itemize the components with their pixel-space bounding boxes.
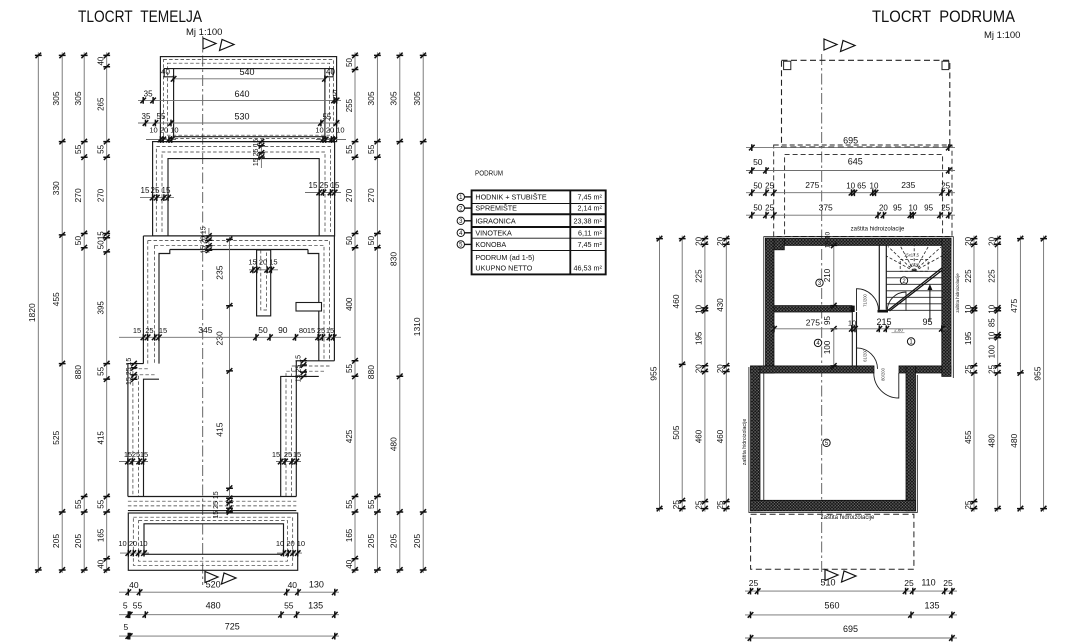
dim chain right RC1 [354, 52, 356, 573]
svg-text:15: 15 [141, 186, 150, 195]
svg-text:15: 15 [307, 326, 315, 335]
svg-text:275: 275 [806, 317, 820, 327]
svg-text:100: 100 [988, 344, 997, 358]
svg-text:25: 25 [941, 181, 950, 190]
right plan chain R4 [1043, 236, 1045, 512]
svg-text:15: 15 [272, 450, 280, 459]
svg-text:15x17,5: 15x17,5 [904, 253, 920, 258]
svg-text:55: 55 [97, 366, 106, 375]
S3 left step wall [128, 364, 159, 497]
S3a band upper big section [143, 236, 334, 364]
room number 4 [814, 339, 821, 346]
svg-text:15: 15 [159, 326, 167, 335]
big room top wall right part [899, 366, 951, 373]
svg-text:IGRAONICA: IGRAONICA [475, 216, 516, 225]
right plan chain R3 [1019, 236, 1021, 512]
svg-text:205: 205 [389, 534, 399, 548]
legend circle 1 [457, 193, 464, 200]
top dim row4 [746, 214, 955, 216]
section axis line left plan [202, 36, 204, 585]
svg-text:395: 395 [97, 301, 106, 315]
svg-text:15: 15 [140, 450, 148, 459]
svg-text:TLOCRT TEMELJA: TLOCRT TEMELJA [78, 7, 203, 26]
svg-text:455: 455 [51, 292, 61, 306]
svg-text:110: 110 [921, 578, 935, 588]
dim chain left D [106, 52, 108, 573]
svg-text:55: 55 [97, 499, 106, 508]
svg-text:55: 55 [73, 499, 83, 509]
svg-text:25: 25 [151, 186, 160, 195]
svg-text:15: 15 [97, 231, 106, 240]
svg-text:KONOBA: KONOBA [475, 240, 506, 249]
svg-text:Mj 1:100: Mj 1:100 [984, 30, 1020, 41]
svg-text:5: 5 [332, 89, 337, 98]
svg-text:55: 55 [284, 600, 294, 610]
svg-text:46,53 m²: 46,53 m² [574, 264, 603, 273]
S1 wall dims 10 20 10 left [146, 139, 176, 141]
svg-text:530: 530 [234, 111, 249, 121]
S4 wall dims 10 20 10 right [277, 552, 302, 554]
svg-text:55: 55 [322, 112, 331, 121]
svg-text:375: 375 [819, 202, 833, 212]
S1 dim 530 [138, 122, 340, 124]
section mark top left plan [203, 38, 216, 49]
svg-text:15: 15 [331, 181, 340, 190]
S2 top wall dims 15 25 15 vertical [260, 138, 262, 168]
svg-text:305: 305 [389, 91, 399, 105]
dim chain left B [61, 52, 63, 573]
svg-text:270: 270 [97, 188, 106, 202]
svg-text:560: 560 [824, 601, 839, 611]
svg-text:540: 540 [239, 67, 254, 77]
svg-text:480: 480 [1009, 433, 1019, 447]
door 2 arc at stair base [887, 292, 906, 311]
svg-text:80/200: 80/200 [881, 367, 886, 380]
svg-text:40: 40 [161, 68, 170, 77]
interior dim row y=328.8 [770, 328, 947, 330]
svg-text:235: 235 [901, 180, 915, 190]
right plan chain L3 [704, 236, 706, 512]
svg-text:35: 35 [142, 112, 151, 121]
svg-text:25: 25 [765, 181, 774, 190]
svg-text:50: 50 [258, 325, 268, 335]
svg-text:6,11 m²: 6,11 m² [578, 228, 602, 237]
svg-text:zaštita hidroizolacije: zaštita hidroizolacije [851, 227, 905, 233]
svg-text:415: 415 [215, 422, 225, 436]
svg-text:7,45 m²: 7,45 m² [578, 240, 603, 249]
svg-text:95: 95 [924, 204, 933, 213]
svg-text:880: 880 [366, 365, 376, 379]
bottom dim row3 left plan [119, 635, 339, 637]
legend circle 2 [457, 204, 464, 211]
svg-text:215: 215 [876, 317, 891, 327]
dim chain left C [83, 52, 85, 573]
svg-text:695: 695 [843, 135, 858, 145]
bottom dim row2 right plan [745, 614, 957, 616]
svg-text:270: 270 [366, 188, 376, 202]
right plan chain L2 [681, 236, 683, 512]
S3 right wall dims 15 25 15 at y457 [276, 461, 301, 463]
svg-text:55: 55 [366, 144, 376, 154]
bottom dim row1 left plan [119, 591, 339, 593]
svg-text:Mj 1:100: Mj 1:100 [186, 27, 222, 38]
svg-text:460: 460 [695, 429, 704, 443]
room number 1 [907, 338, 914, 345]
svg-text:1310: 1310 [412, 317, 422, 336]
svg-text:HODNIK + STUBIŠTE: HODNIK + STUBIŠTE [475, 192, 546, 201]
svg-text:505: 505 [671, 425, 681, 439]
stair winder dashed rays [888, 247, 914, 272]
svg-text:400: 400 [345, 297, 354, 311]
svg-text:25: 25 [317, 326, 325, 335]
svg-text:50: 50 [97, 240, 106, 249]
top dim row3 [746, 192, 955, 194]
corridor wall [852, 312, 856, 366]
svg-text:40: 40 [129, 580, 139, 590]
svg-text:15 25 15: 15 25 15 [213, 491, 220, 518]
svg-text:95: 95 [922, 317, 932, 327]
svg-text:460: 460 [671, 294, 681, 308]
big room top wall left part [760, 366, 874, 373]
svg-text:23,38 m²: 23,38 m² [574, 216, 603, 225]
foundation outline S1 top box [160, 57, 336, 142]
svg-text:15 25 15: 15 25 15 [126, 358, 133, 385]
svg-text:2,14 m²: 2,14 m² [578, 204, 603, 213]
svg-text:55: 55 [366, 499, 376, 509]
svg-text:50: 50 [73, 236, 83, 246]
svg-text:135: 135 [308, 600, 323, 610]
right upper wall hatched [942, 238, 951, 376]
svg-text:25: 25 [943, 578, 953, 588]
svg-text:71/200: 71/200 [863, 293, 868, 306]
svg-text:25: 25 [145, 326, 153, 335]
legend circle 5 [457, 241, 464, 248]
stair up line with arrow [929, 286, 931, 321]
left step wall dims 15 25 15 vertical [131, 361, 138, 367]
svg-text:695: 695 [843, 624, 858, 634]
S3b bottom band [128, 497, 296, 511]
svg-text:430: 430 [716, 298, 725, 312]
section mark bottom right plan [825, 570, 838, 581]
svg-text:330: 330 [51, 181, 61, 195]
svg-text:50: 50 [345, 236, 354, 245]
svg-text:195: 195 [695, 331, 704, 345]
svg-text:955: 955 [648, 366, 658, 380]
svg-text:15 20 15: 15 20 15 [248, 258, 277, 267]
section mark bottom left plan [205, 572, 218, 583]
S3a top wall dims 15 20 15 vertical [208, 228, 210, 253]
svg-text:225: 225 [988, 269, 997, 283]
S1 dim 540 [172, 78, 326, 80]
bottom dim row1 right plan [745, 590, 957, 592]
svg-text:205: 205 [366, 534, 376, 548]
svg-text:55: 55 [73, 144, 83, 154]
stair treads [886, 270, 942, 272]
svg-text:7,45 m²: 7,45 m² [578, 192, 603, 201]
svg-text:50: 50 [753, 181, 762, 190]
S4 wall dims 10 20 10 left [120, 552, 149, 554]
upper dashed footprint rect [782, 60, 950, 147]
legend table [472, 190, 606, 274]
svg-text:85: 85 [988, 318, 997, 327]
left lower wall + step [751, 366, 774, 373]
svg-text:270: 270 [345, 188, 354, 202]
corner square top-left [784, 61, 791, 69]
svg-text:425: 425 [345, 429, 354, 443]
door 4 arc corridor [857, 348, 878, 369]
svg-text:480: 480 [206, 600, 221, 610]
svg-text:55: 55 [345, 364, 354, 373]
svg-text:55: 55 [133, 600, 143, 610]
svg-text:510: 510 [820, 578, 835, 588]
excavation dashed rect inner [785, 154, 943, 236]
top dim 695 [746, 147, 955, 149]
right step wall dims 15 25 15 vertical [300, 358, 307, 364]
svg-text:PODRUM: PODRUM [475, 168, 503, 177]
svg-text:65: 65 [857, 181, 866, 190]
svg-text:15 25 15: 15 25 15 [253, 139, 260, 166]
svg-text:345: 345 [198, 325, 212, 335]
svg-text:95: 95 [823, 316, 832, 325]
svg-text:235: 235 [215, 265, 225, 279]
svg-text:50: 50 [366, 236, 376, 246]
svg-text:480: 480 [389, 437, 399, 451]
svg-text:16/25: 16/25 [909, 263, 920, 268]
svg-text:zaštita hidroizolacije: zaštita hidroizolacije [742, 419, 748, 466]
svg-text:15 20 15: 15 20 15 [200, 226, 207, 253]
svg-text:61/200: 61/200 [863, 348, 868, 361]
S1 wall dims 10 20 10 right [316, 139, 346, 141]
right pier rect [296, 303, 322, 312]
middle wall hatched [774, 306, 852, 312]
room number 3 [816, 279, 823, 286]
right plan chain R2 [997, 236, 999, 512]
section mark top right plan [824, 39, 837, 50]
svg-text:5: 5 [124, 622, 129, 632]
svg-text:25: 25 [765, 204, 774, 213]
svg-text:10: 10 [909, 204, 918, 213]
svg-text:270: 270 [73, 188, 83, 202]
svg-text:25: 25 [320, 181, 329, 190]
S4 bottom box band [128, 513, 297, 570]
svg-text:95: 95 [893, 204, 902, 213]
top dim 50/645 [746, 170, 955, 172]
svg-text:230: 230 [215, 331, 225, 345]
svg-text:25: 25 [904, 578, 914, 588]
central pier stub [257, 250, 271, 316]
right plan chain L1 [659, 236, 661, 512]
svg-text:10 20 10: 10 20 10 [149, 126, 178, 135]
svg-text:40: 40 [345, 559, 354, 568]
axis dim 210 [833, 245, 835, 305]
svg-text:10: 10 [846, 181, 855, 190]
S3b bottom band dims 15 20 15 [226, 496, 233, 502]
svg-text:520: 520 [206, 580, 221, 590]
S1 hammer steps [164, 69, 333, 77]
interior vertical chain 235/230/415 [229, 237, 231, 513]
svg-text:2.80: 2.80 [894, 328, 903, 333]
svg-text:50: 50 [753, 204, 762, 213]
S2 right wall dims 15 25 15 [305, 192, 341, 194]
svg-text:15 25 15: 15 25 15 [296, 355, 303, 382]
top wall hatched [766, 238, 952, 245]
svg-text:40: 40 [97, 559, 106, 568]
svg-text:TLOCRT PODRUMA: TLOCRT PODRUMA [872, 7, 1016, 26]
svg-text:SPREMIŠTE: SPREMIŠTE [475, 204, 517, 213]
left upper wall hatched [766, 238, 775, 373]
svg-text:10 20 10: 10 20 10 [315, 126, 344, 135]
svg-text:15: 15 [293, 450, 301, 459]
svg-text:275: 275 [805, 180, 819, 190]
thin insulation outline upper [764, 237, 954, 510]
S3 left wall dims 15 25 15 at y457 [119, 461, 148, 463]
svg-text:640: 640 [234, 89, 249, 99]
svg-text:10: 10 [870, 181, 879, 190]
svg-text:880: 880 [73, 365, 83, 379]
dim chain 1820 outer left [37, 52, 39, 573]
bottom wall hatched [751, 500, 916, 511]
svg-text:305: 305 [51, 91, 61, 105]
stair partition wall [879, 245, 886, 309]
stub width dims 15 20 15 [249, 269, 278, 271]
right lower wall hatched [906, 366, 916, 511]
legend circle 3 [457, 217, 464, 224]
right plan chain R1 [973, 236, 975, 512]
svg-text:305: 305 [73, 91, 83, 105]
svg-text:zaštita hidroizolacije: zaštita hidroizolacije [821, 515, 875, 521]
svg-text:UKUPNO NETTO: UKUPNO NETTO [475, 264, 532, 273]
room number 2 [900, 277, 907, 284]
svg-text:100: 100 [823, 340, 832, 354]
wall stub left of door1 [851, 306, 855, 312]
svg-text:205: 205 [412, 534, 422, 548]
svg-text:415: 415 [97, 431, 106, 445]
svg-text:460: 460 [716, 429, 725, 443]
svg-text:225: 225 [695, 269, 704, 283]
svg-text:15: 15 [309, 181, 318, 190]
svg-text:830: 830 [389, 252, 399, 266]
svg-text:40: 40 [97, 56, 106, 65]
svg-text:195: 195 [964, 331, 973, 345]
svg-text:90: 90 [278, 325, 288, 335]
top-left corner block [766, 238, 785, 250]
svg-text:210: 210 [823, 268, 832, 282]
door 3 arc lower wall [874, 373, 899, 398]
S3 right step wall [281, 361, 335, 497]
svg-text:205: 205 [73, 534, 83, 548]
svg-text:725: 725 [225, 622, 240, 632]
svg-text:55: 55 [157, 112, 166, 121]
axis dim 100 [833, 329, 835, 366]
svg-text:50: 50 [753, 157, 763, 167]
svg-text:55: 55 [345, 499, 354, 508]
svg-text:zaštita hidroizolacije: zaštita hidroizolacije [955, 273, 960, 313]
excavation dashed rect outer [774, 145, 952, 236]
svg-text:135: 135 [924, 601, 939, 611]
mid horizontal dim line y=337 [119, 336, 341, 338]
svg-text:15: 15 [162, 186, 171, 195]
svg-text:265: 265 [97, 97, 106, 111]
svg-text:40: 40 [288, 580, 298, 590]
svg-text:55: 55 [97, 144, 106, 153]
svg-text:15: 15 [133, 326, 141, 335]
svg-text:50: 50 [345, 58, 354, 67]
section axis line right plan [821, 54, 823, 575]
svg-text:205: 205 [51, 534, 61, 548]
svg-text:5: 5 [123, 600, 128, 610]
svg-text:PODRUM (ad 1-5): PODRUM (ad 1-5) [475, 253, 534, 262]
S2 left wall dims 15 25 15 [140, 197, 174, 199]
thin insulation outline lower [749, 367, 917, 513]
right plan chain L4 [725, 236, 727, 512]
svg-text:955: 955 [1032, 366, 1042, 380]
svg-text:25: 25 [284, 450, 292, 459]
dim chain right RC4 [422, 52, 424, 573]
svg-text:305: 305 [412, 91, 422, 105]
svg-text:525: 525 [51, 430, 61, 444]
svg-text:10: 10 [848, 318, 856, 327]
S1 dim 640 [138, 99, 341, 101]
legend circle 4 [457, 229, 464, 236]
svg-text:255: 255 [345, 98, 354, 112]
svg-text:305: 305 [366, 91, 376, 105]
dim chain right RC3 [399, 52, 401, 573]
bottom dim row3 right plan [745, 637, 957, 639]
dim chain right RC2 [376, 52, 378, 573]
svg-text:20: 20 [879, 204, 888, 213]
door 1 arc [857, 289, 879, 311]
lower dashed terrace rect [751, 514, 914, 569]
svg-text:475: 475 [1009, 298, 1019, 312]
svg-text:10 20 10: 10 20 10 [118, 539, 147, 548]
svg-text:10 20 10: 10 20 10 [276, 539, 305, 548]
room number 5 [823, 439, 830, 446]
svg-text:1820: 1820 [27, 303, 37, 322]
svg-text:VINOTEKA: VINOTEKA [475, 228, 512, 237]
stair cut diagonal [887, 268, 942, 311]
stair landing dashed [900, 260, 928, 272]
svg-text:25: 25 [941, 204, 950, 213]
svg-text:130: 130 [309, 580, 324, 590]
corner square top-right [942, 61, 949, 69]
svg-text:645: 645 [848, 157, 863, 167]
svg-text:55: 55 [345, 144, 354, 153]
svg-text:165: 165 [97, 528, 106, 542]
svg-text:25: 25 [749, 578, 759, 588]
bottom dim row2 left plan [119, 614, 339, 616]
svg-text:480: 480 [988, 434, 997, 448]
svg-text:225: 225 [964, 269, 973, 283]
svg-text:455: 455 [964, 430, 973, 444]
svg-text:35: 35 [144, 89, 153, 98]
svg-text:165: 165 [345, 528, 354, 542]
svg-text:40: 40 [326, 68, 335, 77]
svg-text:15: 15 [326, 326, 334, 335]
